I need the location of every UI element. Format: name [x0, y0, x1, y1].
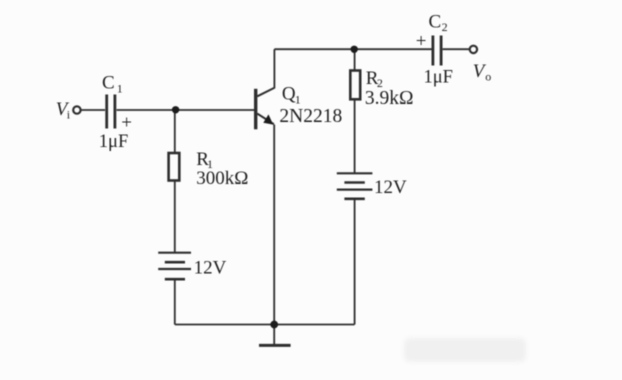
svg-text:C: C [429, 11, 442, 32]
svg-text:1: 1 [295, 92, 301, 106]
svg-text:2N2218: 2N2218 [279, 106, 342, 127]
svg-text:300kΩ: 300kΩ [196, 168, 248, 189]
svg-text:1μF: 1μF [99, 132, 128, 152]
svg-text:Q: Q [282, 84, 296, 105]
svg-text:2: 2 [442, 20, 448, 34]
svg-text:1: 1 [117, 81, 123, 95]
svg-text:3.9kΩ: 3.9kΩ [365, 88, 414, 109]
svg-text:12V: 12V [374, 177, 407, 198]
svg-text:o: o [485, 69, 491, 83]
svg-text:+: + [121, 112, 132, 133]
svg-text:1μF: 1μF [424, 68, 453, 88]
svg-text:+: + [416, 31, 427, 52]
svg-text:C: C [102, 72, 115, 93]
svg-text:12V: 12V [194, 257, 227, 278]
